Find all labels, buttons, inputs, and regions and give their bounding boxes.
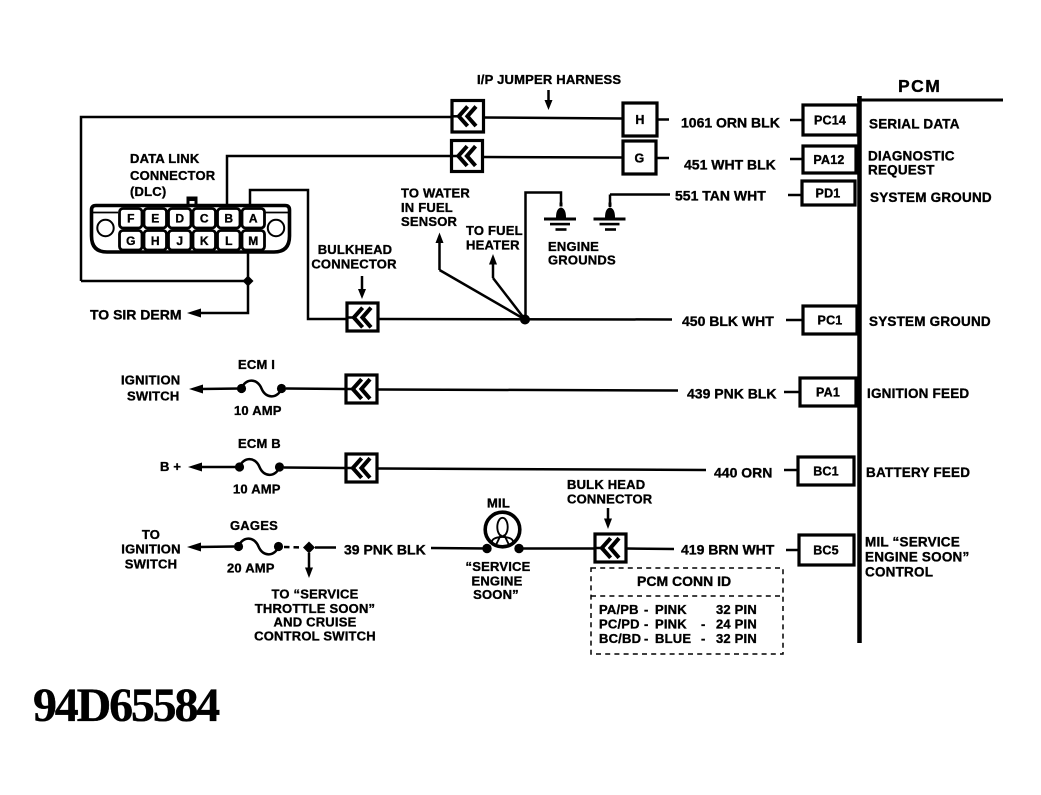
label MIL bbox=[487, 496, 510, 511]
fuse GAGES 20 AMP bbox=[234, 539, 283, 555]
svg-text:SYSTEM GROUND: SYSTEM GROUND bbox=[870, 190, 992, 205]
svg-text:A: A bbox=[249, 212, 258, 226]
DLC pin H bbox=[144, 231, 167, 251]
svg-text:GAGES: GAGES bbox=[230, 518, 278, 533]
svg-text:SYSTEM GROUND: SYSTEM GROUND bbox=[869, 314, 991, 329]
I/P harness pointer arrow bbox=[545, 90, 553, 110]
wire bbox=[484, 118, 624, 119]
svg-text:ECM I: ECM I bbox=[238, 357, 275, 372]
svg-text:32 PIN: 32 PIN bbox=[716, 631, 757, 646]
svg-text:SOON”: SOON” bbox=[473, 587, 519, 602]
DLC right mounting hole bbox=[268, 220, 284, 236]
wire pin A to bulkhead run bbox=[250, 190, 347, 319]
svg-text:BATTERY FEED: BATTERY FEED bbox=[866, 465, 970, 480]
svg-text:32 PIN: 32 PIN bbox=[716, 602, 757, 617]
wire row2 from pin B bbox=[227, 156, 452, 204]
svg-text:E: E bbox=[151, 212, 159, 226]
junction node on 450 wire bbox=[520, 315, 530, 325]
svg-text:BULK HEAD: BULK HEAD bbox=[567, 477, 645, 492]
svg-text:PCM CONN ID: PCM CONN ID bbox=[637, 573, 731, 589]
wire label 1061 ORN BLK bbox=[681, 115, 780, 131]
PCM boundary top horizontal line bbox=[857, 99, 1003, 102]
svg-text:TO SIR DERM: TO SIR DERM bbox=[90, 307, 182, 323]
fuse ECM I 10 AMP bbox=[237, 381, 286, 397]
svg-text:G: G bbox=[126, 234, 135, 248]
label DATA LINK CONNECTOR (DLC) bbox=[130, 151, 216, 199]
arrow to ignition switch bbox=[189, 385, 241, 394]
svg-text:1061 ORN BLK: 1061 ORN BLK bbox=[681, 115, 780, 131]
pin box PA1 bbox=[784, 378, 856, 406]
DLC pin B bbox=[218, 209, 241, 229]
svg-text:BC1: BC1 bbox=[813, 465, 839, 479]
junction node (gages branch) bbox=[303, 542, 315, 554]
bulkhead connector chevron C3 (row 450) bbox=[347, 303, 378, 331]
svg-text:G: G bbox=[635, 152, 645, 166]
svg-text:-: - bbox=[701, 631, 706, 646]
label TO WATER IN FUEL SENSOR bbox=[401, 186, 470, 230]
engine ground symbol 1 bbox=[544, 203, 576, 231]
arrow to B+ bbox=[188, 463, 239, 472]
svg-text:CONNECTOR: CONNECTOR bbox=[130, 168, 216, 183]
svg-text:10 AMP: 10 AMP bbox=[234, 403, 282, 418]
svg-text:10 AMP: 10 AMP bbox=[233, 482, 281, 497]
svg-text:IGNITION FEED: IGNITION FEED bbox=[867, 386, 969, 401]
svg-text:PD1: PD1 bbox=[816, 187, 841, 201]
wire stub bbox=[657, 118, 669, 121]
svg-text:CONTROL: CONTROL bbox=[865, 565, 933, 580]
DLC pin M bbox=[242, 231, 265, 251]
DLC connector body bbox=[92, 206, 290, 253]
dashed wire to junction bbox=[284, 546, 303, 549]
bulkhead pointer arrow (row 419) bbox=[604, 508, 612, 529]
svg-text:419 BRN WHT: 419 BRN WHT bbox=[681, 542, 775, 558]
wire left loop to junction bbox=[81, 280, 244, 283]
svg-text:PC1: PC1 bbox=[818, 314, 843, 328]
svg-text:PC/PD: PC/PD bbox=[599, 617, 640, 632]
svg-text:TO WATER: TO WATER bbox=[401, 186, 470, 201]
wire pin M down to junction and TO SIR DERM bbox=[201, 253, 248, 313]
svg-text:PA1: PA1 bbox=[816, 386, 840, 400]
label I/P JUMPER HARNESS bbox=[477, 72, 621, 87]
label BULK HEAD CONNECTOR (row 419) bbox=[567, 477, 653, 507]
svg-text:REQUEST: REQUEST bbox=[868, 163, 935, 178]
pin box PD1 bbox=[788, 181, 855, 205]
branch arrow down bbox=[305, 553, 313, 578]
DLC left mounting hole bbox=[97, 220, 113, 236]
pin box PA12 bbox=[790, 146, 856, 173]
label 20 AMP bbox=[227, 561, 275, 576]
wire label 451 WHT BLK bbox=[684, 157, 776, 173]
wire row1 left vertical bbox=[81, 117, 452, 281]
svg-text:MIL “SERVICE: MIL “SERVICE bbox=[865, 535, 960, 550]
svg-text:(DLC): (DLC) bbox=[130, 184, 166, 199]
label ECM I bbox=[238, 357, 275, 372]
label B+ (row 440) bbox=[160, 459, 181, 474]
svg-text:F: F bbox=[127, 212, 134, 226]
PCM CONN ID table box bbox=[591, 568, 783, 654]
svg-text:-: - bbox=[701, 617, 706, 632]
label GAGES bbox=[230, 518, 278, 533]
svg-text:551 TAN WHT: 551 TAN WHT bbox=[675, 188, 766, 204]
table row PA/PB PINK 32 PIN bbox=[599, 602, 757, 617]
svg-text:-: - bbox=[644, 631, 649, 646]
wire chevron to BC5 bbox=[626, 547, 674, 550]
svg-text:BC5: BC5 bbox=[813, 544, 839, 558]
label TO SIR DERM bbox=[90, 307, 182, 323]
svg-text:SENSOR: SENSOR bbox=[401, 214, 458, 229]
PCM title bbox=[898, 76, 941, 96]
pin box PC1 bbox=[786, 306, 857, 334]
wire bulkhead to PC1 bbox=[378, 318, 672, 321]
label IGNITION SWITCH (row 439) bbox=[121, 373, 180, 404]
wire ground branch up from junction bbox=[526, 193, 562, 320]
svg-text:TO FUEL: TO FUEL bbox=[466, 223, 523, 238]
pin box BC1 bbox=[784, 457, 854, 485]
svg-text:I/P JUMPER HARNESS: I/P JUMPER HARNESS bbox=[477, 72, 621, 87]
arrow to ignition switch (gages) bbox=[187, 543, 234, 552]
wire to water-in-fuel sensor bbox=[436, 233, 526, 320]
svg-text:SERIAL DATA: SERIAL DATA bbox=[869, 117, 960, 132]
label TO SERVICE THROTTLE SOON AND CRUISE CONTROL SWITCH bbox=[254, 587, 376, 644]
PCM boundary vertical line bbox=[857, 96, 862, 643]
DLC pin K bbox=[193, 231, 216, 251]
svg-text:BC/BD: BC/BD bbox=[599, 631, 641, 646]
terminal box H bbox=[623, 103, 657, 136]
svg-text:MIL: MIL bbox=[487, 496, 510, 511]
wire label to MIL bbox=[431, 547, 488, 550]
wire label 450 BLK WHT bbox=[682, 313, 774, 329]
label ENGINE GROUNDS bbox=[548, 239, 616, 268]
svg-text:94D65584: 94D65584 bbox=[33, 679, 220, 732]
label BATTERY FEED bbox=[866, 465, 970, 480]
svg-text:TO: TO bbox=[142, 527, 160, 542]
svg-text:M: M bbox=[248, 234, 258, 248]
wire MIL to bulkhead chevron bbox=[519, 547, 595, 550]
svg-text:CONNECTOR: CONNECTOR bbox=[311, 257, 397, 272]
svg-text:ECM B: ECM B bbox=[238, 436, 281, 451]
label IGNITION FEED bbox=[867, 386, 969, 401]
connector chevron C2 (row 451) bbox=[452, 141, 483, 172]
wire label 419 BRN WHT bbox=[681, 542, 775, 558]
svg-text:20 AMP: 20 AMP bbox=[227, 561, 275, 576]
label SYSTEM GROUND (mid) bbox=[869, 314, 991, 329]
label DIAGNOSTIC REQUEST bbox=[868, 149, 955, 178]
connector chevron C1 (row 1061) bbox=[452, 101, 484, 133]
svg-text:451 WHT BLK: 451 WHT BLK bbox=[684, 157, 776, 173]
svg-text:HEATER: HEATER bbox=[466, 238, 520, 253]
svg-text:IGNITION: IGNITION bbox=[121, 542, 180, 557]
junction node below DLC bbox=[243, 276, 254, 287]
svg-text:IN FUEL: IN FUEL bbox=[401, 200, 453, 215]
label MIL SERVICE ENGINE SOON CONTROL bbox=[865, 535, 969, 580]
DLC pin J bbox=[169, 231, 192, 251]
DLC pin G bbox=[120, 231, 143, 251]
svg-text:439 PNK BLK: 439 PNK BLK bbox=[687, 386, 776, 402]
label SYSTEM GROUND (top) bbox=[870, 190, 992, 205]
svg-text:PINK: PINK bbox=[655, 602, 687, 617]
pin box BC5 bbox=[786, 535, 854, 565]
wire to fuel heater bbox=[489, 254, 525, 320]
arrow TO SIR DERM bbox=[187, 309, 201, 318]
svg-text:-: - bbox=[644, 602, 649, 617]
table row BC/BD BLUE 32 PIN bbox=[599, 631, 757, 646]
svg-text:“SERVICE: “SERVICE bbox=[466, 559, 531, 574]
MIL lamp symbol bbox=[482, 512, 523, 553]
svg-text:-: - bbox=[644, 617, 649, 632]
label BULKHEAD CONNECTOR bbox=[311, 242, 397, 272]
label TO IGNITION SWITCH (row 39) bbox=[121, 527, 180, 572]
drawing number 94D65584 bbox=[33, 679, 220, 732]
wire label 440 ORN bbox=[714, 465, 772, 481]
wire label 551 TAN WHT bbox=[675, 188, 766, 204]
connector chevron C4 (row 439) bbox=[346, 375, 377, 403]
terminal box G bbox=[623, 141, 656, 174]
svg-text:CONNECTOR: CONNECTOR bbox=[567, 492, 653, 507]
svg-text:SWITCH: SWITCH bbox=[125, 557, 177, 572]
svg-text:B: B bbox=[224, 212, 233, 226]
DLC pin F bbox=[120, 209, 143, 229]
label TO FUEL HEATER bbox=[466, 223, 523, 253]
bulkhead connector chevron C6 (row 419) bbox=[595, 534, 626, 562]
wire fuse to chevron bbox=[286, 387, 346, 390]
svg-text:K: K bbox=[200, 234, 209, 248]
connector chevron C5 (row 440) bbox=[346, 454, 377, 482]
engine ground symbol 2 bbox=[594, 195, 626, 231]
table row PC/PD PINK 24 PIN bbox=[599, 617, 757, 632]
svg-text:L: L bbox=[225, 234, 232, 248]
label PCM CONN ID bbox=[637, 573, 731, 589]
svg-text:PC14: PC14 bbox=[814, 114, 846, 128]
label 10 AMP (row 440) bbox=[233, 482, 281, 497]
DLC pin D bbox=[169, 209, 192, 229]
bulkhead pointer arrow bbox=[358, 276, 366, 299]
svg-text:450 BLK WHT: 450 BLK WHT bbox=[682, 313, 774, 329]
wire chevron to BC1 bbox=[377, 469, 706, 471]
svg-text:DATA LINK: DATA LINK bbox=[130, 151, 200, 166]
pin box PC14 bbox=[790, 105, 858, 135]
svg-text:BULKHEAD: BULKHEAD bbox=[318, 242, 393, 257]
label 10 AMP bbox=[234, 403, 282, 418]
svg-text:DIAGNOSTIC: DIAGNOSTIC bbox=[868, 149, 955, 164]
svg-text:AND CRUISE: AND CRUISE bbox=[274, 615, 357, 630]
DLC pin C bbox=[193, 209, 216, 229]
svg-text:ENGINE SOON”: ENGINE SOON” bbox=[865, 550, 969, 565]
wire stub bbox=[656, 157, 669, 160]
svg-text:BLUE: BLUE bbox=[655, 631, 691, 646]
label SERIAL DATA bbox=[869, 117, 960, 132]
svg-text:H: H bbox=[151, 234, 160, 248]
wire fuse to chevron bbox=[284, 466, 346, 469]
wire label 439 PNK BLK bbox=[687, 386, 776, 402]
svg-text:IGNITION: IGNITION bbox=[121, 373, 180, 388]
svg-text:TO “SERVICE: TO “SERVICE bbox=[272, 587, 359, 602]
svg-text:B +: B + bbox=[160, 459, 181, 474]
DLC pin E bbox=[144, 209, 167, 229]
svg-text:39 PNK BLK: 39 PNK BLK bbox=[344, 542, 426, 558]
svg-text:24 PIN: 24 PIN bbox=[716, 617, 757, 632]
svg-text:SWITCH: SWITCH bbox=[127, 389, 179, 404]
wire chevron to PA1 bbox=[377, 390, 678, 391]
fuse ECM B 10 AMP bbox=[235, 459, 284, 475]
svg-text:PA12: PA12 bbox=[813, 153, 844, 167]
svg-text:D: D bbox=[175, 212, 184, 226]
DLC pin A bbox=[242, 209, 265, 229]
svg-text:J: J bbox=[176, 234, 183, 248]
DLC pin L bbox=[218, 231, 241, 251]
svg-text:PA/PB: PA/PB bbox=[599, 602, 639, 617]
wire junction to label bbox=[315, 546, 336, 549]
svg-text:H: H bbox=[635, 113, 644, 127]
wire row3 engine ground to PD1 bbox=[610, 193, 670, 196]
label ECM B bbox=[238, 436, 281, 451]
DLC connector keying tab bbox=[187, 197, 198, 206]
svg-text:440 ORN: 440 ORN bbox=[714, 465, 772, 481]
wire bbox=[483, 156, 624, 159]
svg-text:C: C bbox=[200, 212, 209, 226]
svg-text:PCM: PCM bbox=[898, 76, 941, 96]
svg-text:PINK: PINK bbox=[655, 617, 687, 632]
wire label 39 PNK BLK bbox=[344, 542, 426, 558]
svg-text:GROUNDS: GROUNDS bbox=[548, 253, 616, 268]
svg-text:CONTROL SWITCH: CONTROL SWITCH bbox=[254, 629, 376, 644]
label "SERVICE ENGINE SOON" bbox=[466, 559, 531, 602]
